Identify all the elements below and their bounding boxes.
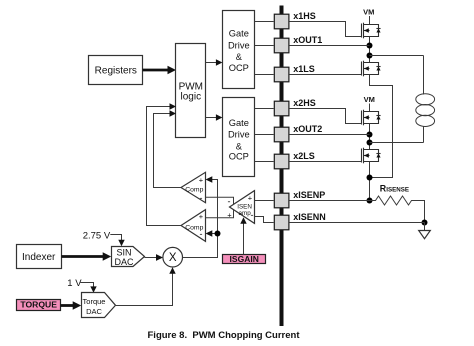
svg-text:OCP: OCP [229, 152, 249, 162]
svg-text:ISGAIN: ISGAIN [230, 254, 259, 264]
svg-text:1 V: 1 V [67, 278, 82, 289]
svg-text:x1LS: x1LS [293, 64, 315, 74]
svg-text:Indexer: Indexer [22, 252, 56, 263]
svg-text:xOUT1: xOUT1 [293, 35, 322, 45]
svg-text:SIN: SIN [116, 247, 131, 257]
svg-text:VM: VM [363, 8, 374, 17]
svg-text:Figure 8. PWM Chopping Curren: Figure 8. PWM Chopping Current [148, 330, 301, 341]
svg-text:&: & [236, 52, 243, 62]
svg-text:Torque: Torque [83, 297, 106, 306]
svg-text:-: - [200, 229, 203, 239]
svg-text:xISENP: xISENP [293, 190, 325, 200]
svg-text:&: & [236, 141, 243, 151]
svg-text:VM: VM [364, 95, 375, 104]
svg-text:Drive: Drive [228, 130, 250, 140]
svg-text:2.75 V: 2.75 V [83, 230, 111, 241]
svg-text:amp: amp [238, 210, 251, 217]
svg-text:xISENN: xISENN [293, 212, 326, 222]
svg-text:ISENSE: ISENSE [386, 187, 409, 194]
svg-text:x1HS: x1HS [293, 11, 316, 21]
svg-text:logic: logic [181, 92, 202, 103]
svg-text:+: + [199, 212, 204, 221]
svg-text:+: + [248, 194, 253, 203]
svg-text:x2LS: x2LS [293, 151, 315, 161]
svg-text:Gate: Gate [229, 29, 249, 39]
svg-text:DAC: DAC [114, 257, 134, 267]
svg-text:-: - [251, 210, 254, 220]
svg-text:Drive: Drive [228, 41, 250, 51]
svg-text:x2HS: x2HS [293, 98, 316, 108]
svg-text:Gate: Gate [229, 118, 249, 128]
svg-text:-: - [228, 197, 231, 207]
svg-text:+: + [227, 211, 232, 220]
svg-text:OCP: OCP [229, 63, 249, 73]
svg-text:DAC: DAC [86, 307, 102, 316]
svg-text:X: X [169, 252, 177, 264]
svg-text:xOUT2: xOUT2 [293, 124, 322, 134]
svg-text:TORQUE: TORQUE [20, 300, 57, 310]
svg-text:+: + [199, 176, 204, 185]
svg-text:-: - [200, 193, 203, 203]
svg-text:Registers: Registers [95, 66, 137, 77]
